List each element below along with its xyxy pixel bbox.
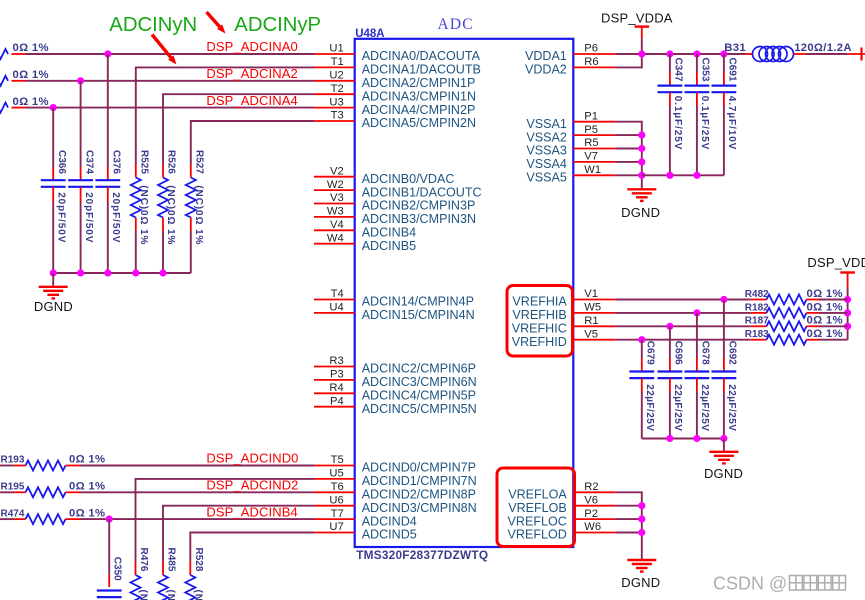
svg-text:C347: C347 <box>673 58 684 82</box>
svg-text:T1: T1 <box>331 56 344 68</box>
svg-text:U5: U5 <box>329 468 343 480</box>
svg-text:DSP_VDDA: DSP_VDDA <box>807 255 865 270</box>
junction on VSSA rail <box>638 172 645 179</box>
wire net DSP_VDDA rail <box>615 53 745 55</box>
svg-text:ADCIND2/CMPIN8P: ADCIND2/CMPIN8P <box>362 488 476 502</box>
svg-text:V2: V2 <box>330 165 344 177</box>
svg-text:R183: R183 <box>745 329 769 340</box>
svg-text:20pF/50V: 20pF/50V <box>110 192 121 243</box>
svg-text:ADCIND5: ADCIND5 <box>362 528 417 542</box>
wire R187 to rail <box>819 325 848 327</box>
capacitor C374 20pF/50V <box>68 167 93 202</box>
pin R4 (ADCINC4/CMPIN5P) <box>314 382 476 403</box>
svg-text:R525: R525 <box>139 150 150 174</box>
svg-text:22µF/25V: 22µF/25V <box>644 384 655 431</box>
junction on DSP_VDD rail <box>844 296 851 303</box>
svg-text:4.7µF/10V: 4.7µF/10V <box>726 96 737 150</box>
wire VSSA pin to rail <box>615 161 642 163</box>
wire C353 down to VSSA bus <box>696 106 698 176</box>
ground DGND (VREFLO) <box>627 560 656 572</box>
svg-text:22µF/25V: 22µF/25V <box>699 384 710 431</box>
svg-text:(NC)0Ω 1%: (NC)0Ω 1% <box>165 590 176 600</box>
wire C691 down to VSSA bus <box>723 106 725 176</box>
svg-text:VSSA1: VSSA1 <box>526 117 566 131</box>
pin T3 (ADCINA5/CMPIN2N) <box>314 110 476 131</box>
svg-text:R527: R527 <box>194 150 205 174</box>
svg-text:V3: V3 <box>330 192 344 204</box>
series resistor at left edge (row DSP_ADCINA4) <box>0 103 26 113</box>
svg-text:VREFHIB: VREFHIB <box>512 308 566 322</box>
svg-text:0Ω 1%: 0Ω 1% <box>69 454 105 466</box>
svg-text:ADCINB1/DACOUTC: ADCINB1/DACOUTC <box>362 185 482 199</box>
resistor R528 (NC) <box>185 561 195 600</box>
svg-text:V7: V7 <box>584 151 598 163</box>
wire net DSP_ADCIND2 <box>81 491 315 493</box>
highlight box around VREFLO pins <box>497 468 575 547</box>
series resistor at left edge (row DSP_ADCINA2) <box>0 76 26 86</box>
svg-text:0.1µF/25V: 0.1µF/25V <box>672 96 683 150</box>
ground DGND (top-left) <box>39 287 68 299</box>
svg-text:P5: P5 <box>584 124 598 136</box>
wire C347 down to VSSA bus <box>669 106 671 176</box>
wire VREFLO pin to rail <box>615 532 642 534</box>
wire C696 to ground bus <box>669 392 671 439</box>
capacitor C678 22µF/25V <box>685 358 710 392</box>
svg-text:C376: C376 <box>111 150 122 174</box>
wire from pin row 67.4 to R525 <box>136 67 314 164</box>
wire from pin row 121.0 to R527 <box>191 121 314 165</box>
pin R3 (ADCINC2/CMPIN6P) <box>314 355 476 376</box>
junction on DSP_VDD rail <box>844 323 851 330</box>
junction on DSP_ADCINA0 <box>104 50 111 57</box>
svg-text:C353: C353 <box>700 58 711 82</box>
svg-text:C679: C679 <box>645 341 656 365</box>
pin P1 (VSSA1) <box>526 110 615 130</box>
wire R525 to ground bus <box>135 231 137 273</box>
svg-text:C691: C691 <box>727 58 738 82</box>
svg-text:W2: W2 <box>327 179 344 191</box>
svg-text:(NC)0Ω 1%: (NC)0Ω 1% <box>138 590 149 600</box>
wire VSSA pin to rail <box>615 148 642 150</box>
svg-text:ADCINB0/VDAC: ADCINB0/VDAC <box>362 172 455 186</box>
wire VREFHI row R187 <box>615 325 751 327</box>
svg-text:ADCINC5/CMPIN5N: ADCINC5/CMPIN5N <box>362 402 477 416</box>
pin U5 (ADCIND1/CMPIN7N) <box>314 468 477 489</box>
wire C366 to ground bus <box>52 202 54 273</box>
pin R5 (VSSA3) <box>526 137 615 158</box>
svg-text:R193: R193 <box>1 455 25 466</box>
capacitor C353 0.1µF/25V <box>685 72 710 106</box>
pin T4 (ADCIN14/CMPIN4P) <box>314 288 474 309</box>
resistor R183 0Ω 1% <box>751 335 819 345</box>
pin U6 (ADCIND3/CMPIN8N) <box>314 494 477 515</box>
wire VDDA2 to rail <box>615 54 642 67</box>
junction on VDDA rail <box>693 50 700 57</box>
wire B31 to right edge <box>806 53 848 55</box>
svg-text:V1: V1 <box>584 288 598 300</box>
svg-text:ADCINB3/CMPIN3N: ADCINB3/CMPIN3N <box>362 212 476 226</box>
svg-text:ADCINA4/CMPIN2P: ADCINA4/CMPIN2P <box>362 103 476 117</box>
ground DGND (VREFHI) <box>709 452 738 464</box>
wire C374 to ground bus <box>80 202 82 273</box>
svg-text:V6: V6 <box>584 494 598 506</box>
wire left edge to R193 <box>0 465 14 467</box>
svg-text:TMS320F28377DZWTQ: TMS320F28377DZWTQ <box>356 548 488 562</box>
wire R482 to rail <box>819 299 848 301</box>
junction on VREFHI row <box>638 336 645 343</box>
svg-text:DSP_ADCINA0: DSP_ADCINA0 <box>206 39 297 54</box>
resistor R474 0Ω 1% <box>14 514 81 524</box>
ground bus (top-left group) <box>53 272 191 274</box>
pin V6 (VREFLOB) <box>508 494 615 515</box>
pin U2 (ADCINA2/CMPIN1P) <box>314 70 475 91</box>
svg-text:0Ω 1%: 0Ω 1% <box>69 507 105 519</box>
svg-text:CSDN @: CSDN @ <box>713 574 787 594</box>
pin U4 (ADCIN15/CMPIN4N) <box>314 302 475 323</box>
svg-text:VREFHID: VREFHID <box>512 335 567 349</box>
svg-text:P6: P6 <box>584 43 598 55</box>
svg-text:ADCIND0/CMPIN7P: ADCIND0/CMPIN7P <box>362 461 476 475</box>
svg-text:R3: R3 <box>329 355 343 367</box>
resistor R526 (NC)0Ω 1% <box>158 165 168 232</box>
highlight box around VREFHI pins <box>507 286 573 357</box>
wire VREFHI row R482 <box>615 299 751 301</box>
wire C376 to ground bus <box>107 202 109 273</box>
svg-text:ADC: ADC <box>438 16 474 33</box>
svg-text:U1: U1 <box>329 43 343 55</box>
resistor R476 (NC) <box>131 561 141 600</box>
wire from pin row to R528 <box>190 533 314 562</box>
junction on VDDA rail <box>666 50 673 57</box>
junction on VSSA bus <box>666 172 673 179</box>
svg-text:ADCIN15/CMPIN4N: ADCIN15/CMPIN4N <box>362 308 475 322</box>
junction on DSP_ADCINB4 row <box>106 516 113 523</box>
capacitor C376 20pF/50V <box>95 167 120 202</box>
pin T7 (ADCIND4) <box>314 508 417 529</box>
svg-text:ADCINC4/CMPIN5P: ADCINC4/CMPIN5P <box>362 389 476 403</box>
svg-text:R1: R1 <box>584 315 598 327</box>
wire net DSP_ADCIND0 <box>81 465 315 467</box>
svg-text:DSP_ADCIND0: DSP_ADCIND0 <box>206 451 298 466</box>
off-page component edge at right <box>860 48 862 61</box>
pin stub at right edge <box>848 53 865 55</box>
svg-text:20pF/50V: 20pF/50V <box>83 192 94 243</box>
pin U3 (ADCINA4/CMPIN2P) <box>314 96 475 117</box>
svg-text:V5: V5 <box>584 328 598 340</box>
svg-text:B31: B31 <box>724 42 746 54</box>
svg-text:0Ω 1%: 0Ω 1% <box>807 328 843 340</box>
svg-text:0Ω 1%: 0Ω 1% <box>807 288 843 300</box>
svg-text:R482: R482 <box>745 289 769 300</box>
svg-text:VREFLOB: VREFLOB <box>508 501 567 515</box>
svg-text:22µF/25V: 22µF/25V <box>726 384 737 431</box>
pin W5 (VREFHIB) <box>512 302 615 323</box>
wire down to C350 <box>108 519 110 574</box>
svg-text:0Ω 1%: 0Ω 1% <box>13 69 49 81</box>
wire VREFLO pin to rail <box>615 518 642 520</box>
junction on VREFHI row <box>693 309 700 316</box>
svg-text:ADCINB2/CMPIN3P: ADCINB2/CMPIN3P <box>362 199 476 213</box>
svg-text:U4: U4 <box>329 302 343 314</box>
svg-text:DSP_VDDA: DSP_VDDA <box>601 11 673 26</box>
svg-text:ADCINA5/CMPIN2N: ADCINA5/CMPIN2N <box>362 116 476 130</box>
svg-text:U48A: U48A <box>355 28 384 40</box>
wire bus to DGND <box>723 439 725 451</box>
junction on VREFLO rail <box>638 502 645 509</box>
svg-text:VSSA5: VSSA5 <box>526 171 566 185</box>
junction on VREFHI ground bus <box>720 435 727 442</box>
svg-text:C374: C374 <box>83 150 94 174</box>
svg-text:T6: T6 <box>331 481 344 493</box>
pin P5 (VSSA2) <box>526 124 615 145</box>
pin R2 (VREFLOA) <box>508 481 615 502</box>
svg-text:R6: R6 <box>584 56 598 68</box>
pin T5 (ADCIND0/CMPIN7P) <box>314 454 476 475</box>
svg-text:(NC)0Ω 1%: (NC)0Ω 1% <box>138 185 149 245</box>
junction on DSP_VDD rail <box>844 309 851 316</box>
svg-text:V4: V4 <box>330 219 344 231</box>
svg-text:0Ω 1%: 0Ω 1% <box>807 315 843 327</box>
svg-text:VDDA1: VDDA1 <box>525 49 567 63</box>
pin V5 (VREFHID) <box>512 328 615 349</box>
svg-text:22µF/25V: 22µF/25V <box>672 384 683 431</box>
wire VDDA rail down to C691 <box>723 54 725 72</box>
wire VSSA bus to caps <box>642 174 724 176</box>
resistor R482 0Ω 1% <box>751 295 819 305</box>
wire bus to DGND <box>52 273 54 286</box>
resistor R193 0Ω 1% <box>14 461 81 471</box>
svg-text:ADCINC3/CMPIN6N: ADCINC3/CMPIN6N <box>362 375 477 389</box>
pin P4 (ADCINC5/CMPIN5N) <box>314 395 477 416</box>
junction on VREFHI row <box>720 296 727 303</box>
wire VDDA rail down to C353 <box>696 54 698 72</box>
wire row down to C692 <box>723 300 725 359</box>
junction on ground bus <box>159 269 166 276</box>
svg-text:ADCINC2/CMPIN6P: ADCINC2/CMPIN6P <box>362 362 476 376</box>
wire left edge to R195 <box>0 491 14 493</box>
wire DSP_VDD rail down <box>847 287 849 339</box>
svg-text:R528: R528 <box>193 548 204 572</box>
svg-text:VDDA2: VDDA2 <box>525 63 567 77</box>
svg-text:C678: C678 <box>700 341 711 365</box>
svg-text:0.1µF/25V: 0.1µF/25V <box>699 96 710 150</box>
wire from pin row to R485 <box>163 506 314 561</box>
svg-text:VREFLOA: VREFLOA <box>508 488 567 502</box>
junction on ground bus <box>77 269 84 276</box>
svg-text:VSSA3: VSSA3 <box>526 144 566 158</box>
svg-text:ADCIND3/CMPIN8N: ADCIND3/CMPIN8N <box>362 501 477 515</box>
wire R182 to rail <box>819 312 848 314</box>
watermark CSDN @weiyuxialiang <box>713 574 846 594</box>
svg-text:VSSA2: VSSA2 <box>526 130 566 144</box>
junction on VSSA rail <box>638 132 645 139</box>
pin W2 (ADCINB1/DACOUTC) <box>314 179 482 200</box>
wire VSSA pin to rail <box>615 174 642 176</box>
wire from pin row to R476 <box>136 479 315 561</box>
wire VREFLO pin to rail <box>615 505 642 507</box>
svg-text:0Ω 1%: 0Ω 1% <box>13 96 49 108</box>
red arrow from ADCINyN to wire <box>152 35 177 65</box>
capacitor C691 4.7µF/10V <box>712 72 737 106</box>
power port DSP_VDDA <box>601 11 673 39</box>
resistor R182 0Ω 1% <box>751 308 819 318</box>
pin V4 (ADCINB4) <box>314 219 416 240</box>
wire row down to C679 <box>641 340 643 358</box>
wire C678 to ground bus <box>696 392 698 439</box>
svg-text:ADCINB5: ADCINB5 <box>362 239 416 253</box>
svg-text:W4: W4 <box>327 232 344 244</box>
wire VSSA1 to vertical rail <box>615 122 642 188</box>
wire DSP_VDDA down to VDDA1 row <box>641 39 643 54</box>
pin W3 (ADCINB3/CMPIN3N) <box>314 206 476 227</box>
junction on VREFHI ground bus <box>693 435 700 442</box>
svg-text:20pF/50V: 20pF/50V <box>55 192 66 243</box>
svg-text:VREFLOD: VREFLOD <box>508 528 567 542</box>
junction on VSSA bus <box>693 172 700 179</box>
capacitor C366 20pF/50V <box>41 167 66 202</box>
wire net DSP_ADCINA2 <box>26 80 315 82</box>
svg-text:ADCINyN: ADCINyN <box>109 14 197 36</box>
capacitor C350 <box>97 574 122 597</box>
wire row down to C696 <box>669 326 671 358</box>
svg-text:P4: P4 <box>330 395 344 407</box>
svg-text:VSSA4: VSSA4 <box>526 157 566 171</box>
wire VSSA pin to rail <box>615 134 642 136</box>
svg-text:ADCINyP: ADCINyP <box>234 14 321 36</box>
svg-text:W5: W5 <box>584 302 601 314</box>
ground bus (VREFHI caps) <box>642 438 724 440</box>
junction on VDDA rail <box>638 50 645 57</box>
resistor R527 (NC)0Ω 1% <box>186 165 196 232</box>
svg-text:DGND: DGND <box>704 466 743 481</box>
pin W1 (VSSA5) <box>526 164 615 185</box>
svg-text:T4: T4 <box>331 288 344 300</box>
series resistor at left edge (row DSP_ADCINA0) <box>0 49 26 59</box>
inductor B31 120Ω/1.2A <box>745 47 806 62</box>
capacitor C679 22µF/25V <box>629 358 654 392</box>
pin V7 (VSSA4) <box>526 151 615 172</box>
svg-text:T2: T2 <box>331 83 344 95</box>
svg-text:R195: R195 <box>1 482 25 493</box>
junction on VDDA rail <box>720 50 727 57</box>
wire R183 to rail <box>819 339 848 341</box>
svg-text:P2: P2 <box>584 508 598 520</box>
svg-text:T7: T7 <box>331 508 344 520</box>
power port DSP_VDD (right) <box>807 255 865 287</box>
op-amp/IC U48A body (TMS320F28377DZWTQ ADC section) <box>355 39 574 547</box>
svg-text:ADCINA0/DACOUTA: ADCINA0/DACOUTA <box>362 49 481 63</box>
wire left edge to R474 <box>0 518 14 520</box>
pin P3 (ADCINC3/CMPIN6N) <box>314 369 477 390</box>
svg-text:ADCINB4: ADCINB4 <box>362 226 416 240</box>
svg-text:R4: R4 <box>329 382 343 394</box>
svg-text:R182: R182 <box>745 302 769 313</box>
wire net DSP_ADCINA0 <box>26 53 315 55</box>
junction on VREFLO rail <box>638 529 645 536</box>
svg-text:ADCIND4: ADCIND4 <box>362 514 417 528</box>
svg-text:0Ω 1%: 0Ω 1% <box>807 301 843 313</box>
wire C692 to ground bus <box>723 392 725 439</box>
pin W4 (ADCINB5) <box>314 232 416 253</box>
svg-text:0Ω 1%: 0Ω 1% <box>69 481 105 493</box>
svg-text:VREFLOC: VREFLOC <box>508 514 567 528</box>
svg-text:R476: R476 <box>138 548 149 572</box>
svg-text:U3: U3 <box>329 96 343 108</box>
svg-text:R474: R474 <box>1 508 25 519</box>
pin V3 (ADCINB2/CMPIN3P) <box>314 192 475 213</box>
wire row down to C678 <box>696 313 698 358</box>
svg-text:W3: W3 <box>327 206 344 218</box>
svg-text:ADCINA1/DACOUTB: ADCINA1/DACOUTB <box>362 63 481 77</box>
svg-text:W1: W1 <box>584 164 601 176</box>
svg-text:(NC)0Ω 1%: (NC)0Ω 1% <box>193 185 204 245</box>
wire VREFLOA to rail <box>615 492 642 559</box>
svg-text:ADCIN14/CMPIN4P: ADCIN14/CMPIN4P <box>362 295 474 309</box>
svg-text:U7: U7 <box>329 521 343 533</box>
svg-text:C696: C696 <box>673 341 684 365</box>
svg-text:T5: T5 <box>331 454 344 466</box>
junction on ground bus <box>132 269 139 276</box>
wire R526 to ground bus <box>162 231 164 273</box>
svg-text:R187: R187 <box>745 316 769 327</box>
svg-text:VREFHIC: VREFHIC <box>512 322 567 336</box>
wire R527 to ground bus <box>190 231 192 273</box>
resistor R187 0Ω 1% <box>751 321 819 331</box>
svg-text:W6: W6 <box>584 521 601 533</box>
resistor R525 (NC)0Ω 1% <box>131 165 141 232</box>
junction on DSP_ADCINA2 <box>77 77 84 84</box>
red arrow between ADCINyN and ADCINyP <box>207 12 226 34</box>
svg-text:0Ω 1%: 0Ω 1% <box>13 42 49 54</box>
capacitor C347 0.1µF/25V <box>658 72 683 106</box>
pin P2 (VREFLOC) <box>508 508 616 529</box>
pin U1 (ADCINA0/DACOUTA) <box>314 43 481 64</box>
junction on VSSA rail <box>638 145 645 152</box>
svg-text:120Ω/1.2A: 120Ω/1.2A <box>794 42 852 54</box>
svg-text:DGND: DGND <box>621 205 660 220</box>
pin T2 (ADCINA3/CMPIN1N) <box>314 83 476 104</box>
pin W6 (VREFLOD) <box>508 521 616 542</box>
svg-text:U2: U2 <box>329 70 343 82</box>
wire VDDA rail down to C347 <box>669 54 671 72</box>
capacitor C692 22µF/25V <box>712 358 737 392</box>
junction on VREFHI ground bus <box>666 435 673 442</box>
svg-text:T3: T3 <box>331 110 344 122</box>
pin V1 (VREFHIA) <box>512 288 615 309</box>
junction on DSP_ADCINA4 <box>50 104 57 111</box>
svg-text:VREFHIA: VREFHIA <box>512 295 567 309</box>
wire from pin row 94.2 to R526 <box>163 94 314 164</box>
svg-text:C366: C366 <box>56 150 67 174</box>
svg-text:P1: P1 <box>584 110 598 122</box>
capacitor C696 22µF/25V <box>658 358 683 392</box>
svg-text:R5: R5 <box>584 137 598 149</box>
resistor R485 (NC) <box>158 561 168 600</box>
pin V2 (ADCINB0/VDAC) <box>314 165 454 186</box>
svg-text:U6: U6 <box>329 494 343 506</box>
svg-text:P3: P3 <box>330 369 344 381</box>
svg-text:(NC)0Ω 1%: (NC)0Ω 1% <box>165 185 176 245</box>
wire from row down to C376 <box>107 54 109 167</box>
junction on VREFLO rail <box>638 516 645 523</box>
junction on ground bus <box>104 269 111 276</box>
svg-text:ADCINA3/CMPIN1N: ADCINA3/CMPIN1N <box>362 89 476 103</box>
wire VREFHI row R183 <box>615 339 751 341</box>
pin T1 (ADCINA1/DACOUTB) <box>314 56 481 77</box>
junction on VSSA rail <box>638 158 645 165</box>
wire net DSP_ADCINA4 <box>26 107 315 109</box>
ground DGND (VSSA) <box>627 189 656 201</box>
